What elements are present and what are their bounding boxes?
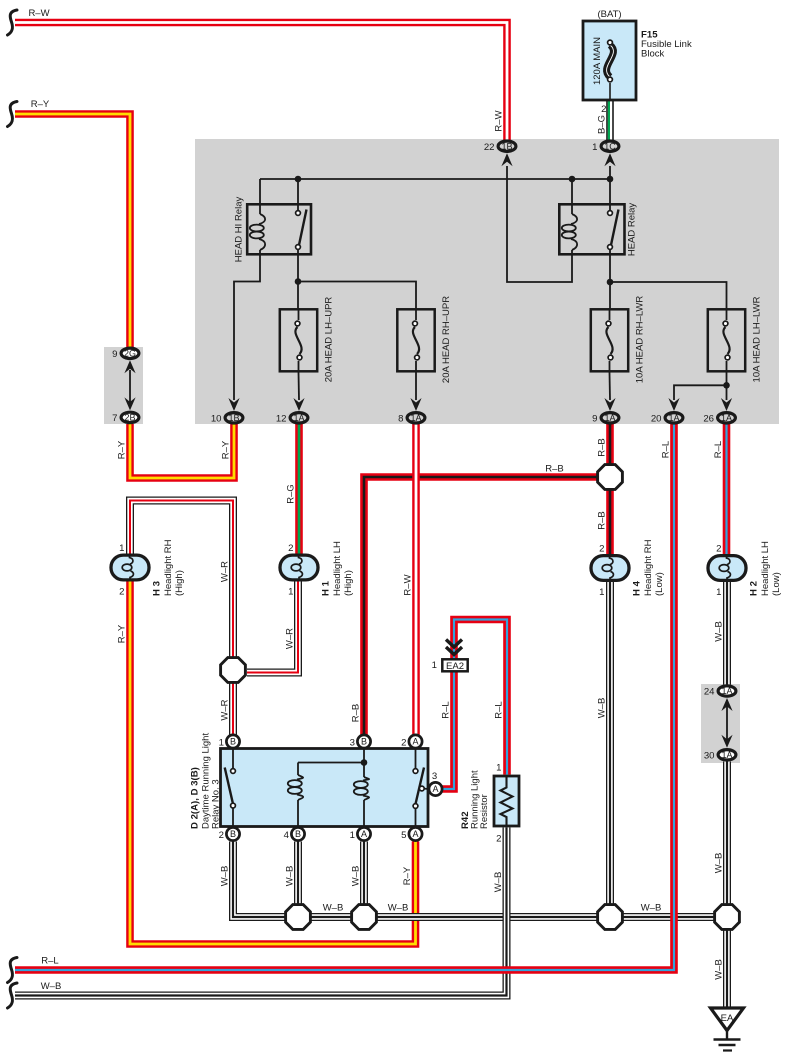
svg-text:1A: 1A xyxy=(604,413,615,423)
svg-text:R–L: R–L xyxy=(41,956,58,967)
svg-text:EA2: EA2 xyxy=(446,661,464,672)
lamp H1 Headlight LH (High) xyxy=(280,541,354,598)
svg-text:R–B: R–B xyxy=(545,464,563,475)
svg-text:R–L: R–L xyxy=(661,441,672,458)
arrow out of 24 xyxy=(721,698,732,711)
connector 24 1A xyxy=(704,686,736,698)
arrow into 1C xyxy=(604,153,615,166)
svg-text:2: 2 xyxy=(219,830,224,841)
junction octagon J1 R-B xyxy=(598,465,623,490)
svg-text:20A HEAD LH–UPR: 20A HEAD LH–UPR xyxy=(324,297,335,383)
lamp H3 Headlight RH (High) xyxy=(111,539,185,597)
connector 20 1A xyxy=(651,413,683,425)
svg-text:W–B: W–B xyxy=(285,866,296,887)
relay D2(A) D3(B) Daytime Running Light Relay No.3 xyxy=(221,749,429,827)
svg-text:2: 2 xyxy=(496,834,501,845)
svg-text:W–R: W–R xyxy=(285,628,296,649)
pin DRL pin 4B xyxy=(291,827,304,840)
pin DRL pin 2B xyxy=(226,827,239,840)
svg-text:R–L: R–L xyxy=(713,441,724,458)
svg-text:R–B: R–B xyxy=(351,704,362,722)
continuation brace R-W xyxy=(8,10,18,35)
svg-text:120A MAIN: 120A MAIN xyxy=(592,37,603,85)
svg-text:B: B xyxy=(230,737,236,747)
wire R-G connector 12 to H1 pin2 xyxy=(295,424,303,554)
relay HEAD HI Relay xyxy=(234,197,312,263)
wire 1C feed to HEAD relay switch xyxy=(609,166,611,211)
svg-text:4: 4 xyxy=(284,830,290,841)
wire W-B rail octagon-octagon 2 xyxy=(377,913,598,921)
svg-text:H 1: H 1 xyxy=(321,580,332,596)
wire branch to connector 20 xyxy=(674,385,727,400)
wire branch to fuse LH-LWR xyxy=(610,282,727,308)
svg-text:22: 22 xyxy=(484,142,495,153)
pin DRL pin 1B xyxy=(226,735,239,748)
junction junction below HEAD HI switch xyxy=(295,278,302,285)
arrow into 8 xyxy=(410,398,421,411)
connector 9 1A xyxy=(592,413,619,425)
fuse F 20A HEAD RH-UPR xyxy=(397,296,452,383)
wire R-B octagon to H4 pin2 xyxy=(606,490,614,555)
svg-text:R–W: R–W xyxy=(403,574,414,595)
svg-text:2: 2 xyxy=(599,544,604,555)
svg-text:10A HEAD LH–LWR: 10A HEAD LH–LWR xyxy=(752,296,763,382)
svg-text:W–R: W–R xyxy=(220,699,231,720)
svg-text:Headlight RH: Headlight RH xyxy=(163,539,174,596)
connector 1 1C xyxy=(592,141,619,153)
svg-text:1: 1 xyxy=(350,830,355,841)
junction octagon J2 W-R xyxy=(221,658,246,683)
svg-text:W–B: W–B xyxy=(493,872,504,893)
wire W-B H4 pin1 to octagon xyxy=(606,582,614,905)
svg-text:1: 1 xyxy=(716,587,721,598)
junction octagon J6 W-B ground xyxy=(715,905,740,930)
svg-text:EA: EA xyxy=(721,1013,734,1024)
pin DRL pin 1A xyxy=(357,827,370,840)
svg-text:A: A xyxy=(361,829,367,839)
svg-text:W–R: W–R xyxy=(220,561,231,582)
svg-text:Relay No. 3: Relay No. 3 xyxy=(211,779,222,829)
connector 12 1A xyxy=(276,413,308,425)
wire fuse RH-UPR out to connector 8 xyxy=(415,373,417,401)
wire W-R H1 pin1 to octagon xyxy=(247,582,298,673)
pin DRL pin 3B xyxy=(357,735,370,748)
svg-text:W–B: W–B xyxy=(323,903,344,914)
svg-text:(BAT): (BAT) xyxy=(597,9,621,20)
svg-text:B: B xyxy=(361,737,367,747)
fusible link block F15 120A MAIN xyxy=(583,21,636,100)
svg-text:9: 9 xyxy=(592,413,597,424)
svg-text:R–Y: R–Y xyxy=(402,866,413,885)
arrow into 20 xyxy=(668,398,679,411)
svg-text:Headlight LH: Headlight LH xyxy=(332,541,343,596)
wire W-B DRL 4B to octagon xyxy=(294,842,302,905)
DRL right switch xyxy=(413,749,429,827)
svg-text:(Low): (Low) xyxy=(654,572,665,596)
svg-text:H 4: H 4 xyxy=(632,580,643,596)
arrow into 9 xyxy=(604,398,615,411)
wire fuse RH-LWR out to connector 9 xyxy=(609,373,612,401)
svg-text:2: 2 xyxy=(716,544,721,555)
svg-text:W–B: W–B xyxy=(714,621,725,642)
svg-text:R–G: R–G xyxy=(286,484,297,504)
wire R-B connector 9 to octagon xyxy=(606,424,614,465)
svg-text:H 2: H 2 xyxy=(749,581,760,596)
gray connector block 24/30 xyxy=(701,684,740,763)
continuation brace R-L xyxy=(8,958,18,983)
svg-text:1A: 1A xyxy=(721,750,732,760)
DRL inner top link xyxy=(298,762,364,764)
svg-text:B: B xyxy=(295,829,301,839)
gray connector block 2G/2B xyxy=(104,347,143,424)
svg-text:2: 2 xyxy=(601,104,606,115)
svg-text:1A: 1A xyxy=(668,413,679,423)
DRL coil 2 (pin 1A) xyxy=(363,800,365,827)
svg-text:R–Y: R–Y xyxy=(117,440,128,459)
wire HEAD HI coil top xyxy=(259,179,261,214)
junction junction HEAD relay switch top xyxy=(607,176,614,183)
svg-text:W–B: W–B xyxy=(714,853,725,874)
svg-text:R–Y: R–Y xyxy=(221,440,232,459)
svg-text:1B: 1B xyxy=(501,141,512,151)
svg-text:24: 24 xyxy=(704,687,715,698)
svg-text:HEAD HI Relay: HEAD HI Relay xyxy=(234,197,245,263)
svg-text:2B: 2B xyxy=(124,413,135,423)
connector 8 1A xyxy=(398,413,425,425)
fuse F 10A HEAD LH-LWR xyxy=(708,296,763,382)
svg-text:R–L: R–L xyxy=(494,701,505,718)
svg-text:R–Y: R–Y xyxy=(117,624,128,643)
svg-text:B–G: B–G xyxy=(597,115,608,134)
svg-text:1: 1 xyxy=(496,763,501,774)
svg-text:1: 1 xyxy=(219,738,224,749)
svg-text:1: 1 xyxy=(288,587,293,598)
wire W-B DRL 2B to octagon xyxy=(233,842,286,918)
wire R-Y H3 pin2 to DRL pin 5A xyxy=(130,582,416,945)
wire W-B DRL 1A to octagon xyxy=(360,842,368,905)
connector 9 2G xyxy=(112,348,139,360)
svg-text:3: 3 xyxy=(432,771,437,782)
connector 10 1B xyxy=(211,413,243,425)
fuse F 20A HEAD LH-UPR xyxy=(280,297,335,383)
svg-text:B: B xyxy=(230,829,236,839)
pin DRL pin 5A xyxy=(409,827,422,840)
lamp H4 Headlight RH (Low) xyxy=(591,539,665,598)
pin DRL pin 2A xyxy=(409,735,422,748)
wire W-B octagon to ground EA xyxy=(723,930,731,1009)
wire W-R octagon to DRL pin 1B xyxy=(229,683,237,735)
svg-text:W–B: W–B xyxy=(220,866,231,887)
svg-text:1A: 1A xyxy=(410,413,421,423)
junction junction below HEAD relay switch xyxy=(607,279,614,286)
relay HEAD Relay xyxy=(559,203,637,257)
svg-text:(Low): (Low) xyxy=(771,572,782,596)
wire W-R H3 pin1 loop to octagon xyxy=(130,501,233,658)
junction junction fuse LH-LWR output xyxy=(723,382,730,389)
svg-text:R–L: R–L xyxy=(441,701,452,718)
arrow into 26 xyxy=(721,398,732,411)
svg-text:1B: 1B xyxy=(228,413,239,423)
svg-text:W–B: W–B xyxy=(597,698,608,719)
DRL coil 1 (pin 4B) xyxy=(297,800,299,827)
arrow into 12 xyxy=(293,398,304,411)
svg-text:R–W: R–W xyxy=(494,110,505,131)
svg-text:1: 1 xyxy=(592,142,597,153)
svg-text:20: 20 xyxy=(651,413,662,424)
svg-text:12: 12 xyxy=(276,413,287,424)
svg-text:1C: 1C xyxy=(604,141,616,151)
wire HEAD HI switch top xyxy=(297,179,299,211)
coil of HEAD relay xyxy=(562,214,577,250)
svg-text:7: 7 xyxy=(112,413,117,424)
svg-text:9: 9 xyxy=(112,349,117,360)
svg-text:1: 1 xyxy=(432,660,437,671)
junction junction HEAD HI switch top xyxy=(295,176,302,183)
wire B-G fusible link to 1C xyxy=(609,100,610,140)
svg-text:2: 2 xyxy=(401,738,406,749)
arrow out of 2G xyxy=(124,360,135,373)
svg-text:26: 26 xyxy=(703,413,714,424)
svg-text:A: A xyxy=(412,737,418,747)
junction octagon J3 W-B left xyxy=(286,905,311,930)
svg-text:H 3: H 3 xyxy=(152,581,163,596)
connector 26 1A xyxy=(703,413,735,425)
wire HEAD HI switch out to fuses xyxy=(297,250,299,309)
wire R-Y left feed to 2G xyxy=(15,114,130,347)
connector 7 2B xyxy=(112,412,139,424)
svg-text:8: 8 xyxy=(398,413,403,424)
svg-text:1: 1 xyxy=(119,543,124,554)
svg-text:1: 1 xyxy=(599,587,604,598)
svg-text:A: A xyxy=(412,829,418,839)
DRL left switch xyxy=(225,749,236,827)
resistor R42 Running Light Resistor xyxy=(494,776,519,826)
connector 30 1A xyxy=(704,750,736,762)
svg-text:Block: Block xyxy=(641,49,664,60)
svg-text:10: 10 xyxy=(211,413,222,424)
arrow into 10 xyxy=(228,398,239,411)
wire W-B R42 pin2 to left rail xyxy=(15,828,507,996)
svg-text:10A HEAD RH–LWR: 10A HEAD RH–LWR xyxy=(635,296,646,384)
svg-text:R–B: R–B xyxy=(597,438,608,456)
wire fuse LH-UPR out to connector 12 xyxy=(298,373,301,401)
junction octagon J4 W-B mid xyxy=(352,905,377,930)
wire R-W connector 8 to DRL pin 2A xyxy=(412,424,420,735)
svg-text:A: A xyxy=(432,784,438,794)
svg-text:HEAD Relay: HEAD Relay xyxy=(627,203,638,257)
arrow into 30 xyxy=(721,735,732,748)
svg-text:2: 2 xyxy=(119,587,124,598)
wire R-Y 2B to connector 10 xyxy=(130,424,234,478)
svg-text:R–Y: R–Y xyxy=(31,99,50,110)
DRL coil2 body xyxy=(354,777,369,800)
wire 1B feed down and over to HEAD relay coil xyxy=(507,166,572,282)
svg-text:2G: 2G xyxy=(124,349,136,359)
svg-text:1A: 1A xyxy=(721,686,732,696)
pin DRL pin 3A xyxy=(429,782,442,795)
ground point EA2 xyxy=(432,640,468,672)
wire R-B horizontal + to DRL pin 3B xyxy=(364,477,597,735)
wire branch to fuse RH-UPR xyxy=(298,282,416,309)
wire R-L DRL 3A via EA2 to R42 pin1 xyxy=(442,620,507,790)
wire R-L connector 26 to H2 pin2 xyxy=(723,424,731,555)
wire R-W from battery feed, top rail xyxy=(15,23,507,141)
svg-text:30: 30 xyxy=(704,750,715,761)
wire W-B connector 30 to octagon xyxy=(723,762,731,905)
svg-text:Headlight RH: Headlight RH xyxy=(643,539,654,596)
wire fuse LH-LWR out to connector 26 xyxy=(726,373,728,401)
svg-text:5: 5 xyxy=(401,830,406,841)
connector 22 1B xyxy=(484,141,516,153)
svg-text:W–B: W–B xyxy=(41,981,62,992)
wire top rail inside relay box xyxy=(260,178,610,180)
arrow into 2B xyxy=(124,397,135,410)
ground EA xyxy=(711,1008,744,1051)
wire R-L connector 20 to bottom rail xyxy=(15,424,674,970)
wire HEAD relay switch out xyxy=(609,250,611,309)
svg-text:R–W: R–W xyxy=(28,8,49,19)
continuation brace R-Y xyxy=(8,102,18,127)
svg-text:(High): (High) xyxy=(343,570,354,596)
DRL coil1 body xyxy=(288,775,303,800)
svg-text:W–B: W–B xyxy=(641,903,662,914)
lamp H2 Headlight LH (Low) xyxy=(708,541,782,598)
svg-text:(High): (High) xyxy=(174,570,185,596)
junction octagon J5 W-B right xyxy=(598,905,623,930)
continuation brace W-B xyxy=(8,983,18,1008)
svg-text:2: 2 xyxy=(288,543,293,554)
svg-text:R–B: R–B xyxy=(597,511,608,529)
wire link 24-30 xyxy=(726,700,728,745)
svg-text:20A HEAD RH–UPR: 20A HEAD RH–UPR xyxy=(441,296,452,383)
wire W-B rail octagon-octagon 1 xyxy=(311,913,352,921)
svg-text:Resistor: Resistor xyxy=(479,794,490,829)
svg-text:D 2(A), D 3(B): D 2(A), D 3(B) xyxy=(190,767,201,829)
coil of HEAD HI relay xyxy=(250,214,265,250)
wire W-B rail octagon-octagon 3 xyxy=(623,913,715,921)
background gray block: relay/fuse integration box xyxy=(195,139,779,424)
svg-text:1A: 1A xyxy=(721,413,732,423)
junction junction HEAD relay coil top xyxy=(569,176,576,183)
svg-text:3: 3 xyxy=(350,738,355,749)
svg-text:Headlight LH: Headlight LH xyxy=(760,541,771,596)
svg-text:1A: 1A xyxy=(293,413,304,423)
fuse F 10A HEAD RH-LWR xyxy=(591,296,646,384)
arrow into 1B xyxy=(501,153,512,166)
svg-text:W–B: W–B xyxy=(388,903,409,914)
svg-text:W–B: W–B xyxy=(714,959,725,980)
junction junction DRL coil2 top xyxy=(361,759,368,766)
wire HEAD HI coil bottom to connector 10 xyxy=(234,250,260,400)
wire link 2G-2B xyxy=(129,370,131,402)
svg-text:W–B: W–B xyxy=(351,866,362,887)
wire W-B H2 pin1 to connector 24 xyxy=(723,582,731,685)
wire HEAD relay coil top xyxy=(571,179,573,214)
